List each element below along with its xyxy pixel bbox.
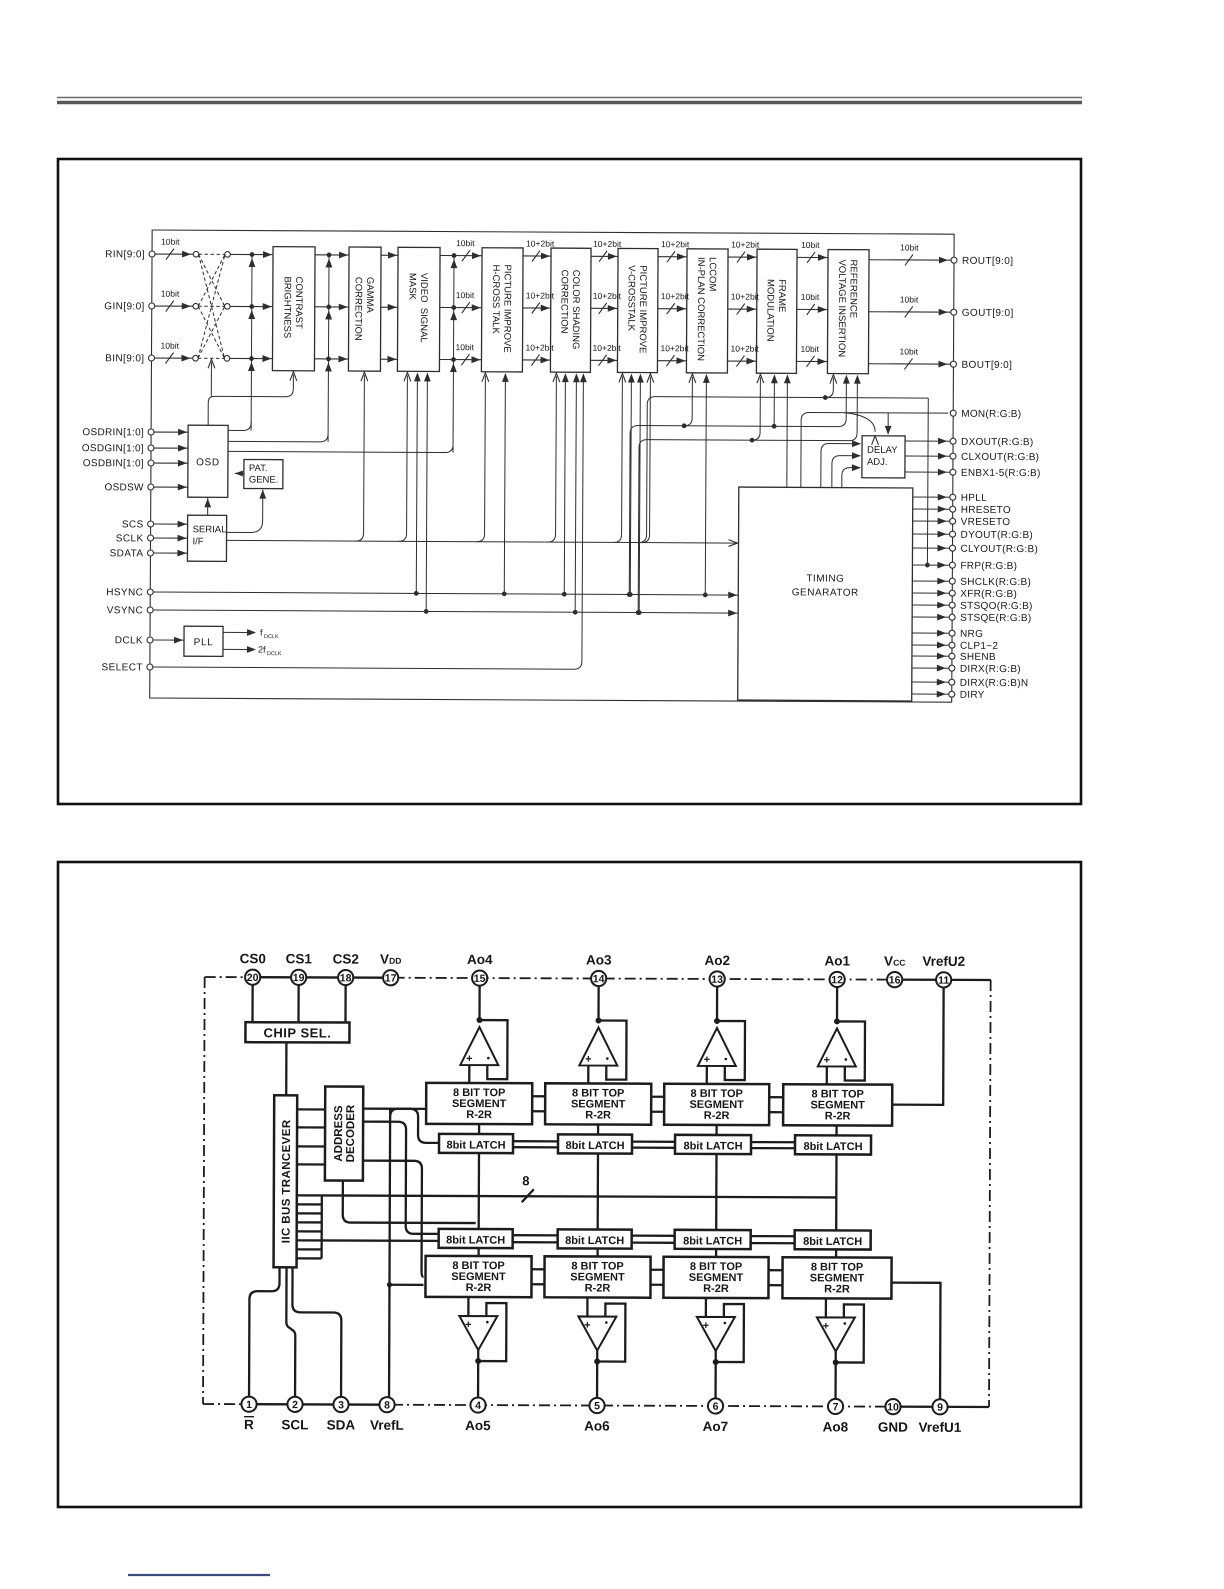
crossbar node left RIN[9:0] xyxy=(193,251,199,257)
svg-text:+: + xyxy=(584,1319,590,1331)
output pin STSQO(R:G:B) xyxy=(912,604,952,606)
output pin ENBX1-5(R:G:B) xyxy=(905,471,953,473)
control riser V-CROSSTALK 1 xyxy=(614,376,623,542)
svg-text:CS0: CS0 xyxy=(240,951,266,966)
svg-text:4: 4 xyxy=(475,1400,481,1412)
svg-text:HPLL: HPLL xyxy=(961,493,987,504)
output pin DIRX(R:G:B)N xyxy=(912,681,952,683)
wire 658-687 row y=358 xyxy=(657,360,686,362)
svg-text:LCCOM: LCCOM xyxy=(707,257,718,291)
svg-text:+: + xyxy=(704,1054,710,1066)
block 8 BIT TOP SEGMENT R-2R (top row 2) xyxy=(545,1083,651,1124)
block SERIAL I/F xyxy=(187,515,226,561)
svg-text:6: 6 xyxy=(713,1401,719,1413)
svg-text:SHCLK(R:G:B): SHCLK(R:G:B) xyxy=(960,577,1031,588)
svg-text:XFR(R:G:B): XFR(R:G:B) xyxy=(960,589,1017,600)
pin 2 bottom xyxy=(287,1397,302,1412)
bottom pin bus solid segment 1-8 xyxy=(249,1403,387,1406)
svg-text:GENE.: GENE. xyxy=(249,475,279,486)
svg-text:10bit: 10bit xyxy=(456,238,475,248)
control riser LCCOM 2 xyxy=(703,592,708,597)
wire ADDRESS DECODER to latch row1 xyxy=(363,1109,439,1143)
svg-text:R-2R: R-2R xyxy=(824,1283,850,1295)
wire 440-482 row y=358 xyxy=(439,359,481,361)
svg-text:DCLK: DCLK xyxy=(264,634,279,640)
control riser V-CROSSTALK 4 xyxy=(642,377,651,543)
svg-text:CHIP SEL.: CHIP SEL. xyxy=(264,1025,332,1040)
wire crossbar to CONTRAST (BIN[9:0]) xyxy=(230,357,272,359)
bus D y=437 xyxy=(638,377,857,614)
svg-text:SDA: SDA xyxy=(327,1417,356,1432)
svg-text:Ao1: Ao1 xyxy=(824,953,850,968)
svg-text:10bit: 10bit xyxy=(900,294,919,304)
pin 14 top xyxy=(591,971,606,986)
wire CS2 to CHIP SEL xyxy=(344,986,346,1023)
control riser FRAME MODULATION 2 xyxy=(772,424,777,429)
svg-text:Ao7: Ao7 xyxy=(703,1419,729,1434)
svg-text:10+2bit: 10+2bit xyxy=(661,239,690,249)
svg-text:MASK: MASK xyxy=(407,273,418,301)
output pin HRESETO xyxy=(913,508,953,510)
svg-text:CS1: CS1 xyxy=(286,951,313,966)
wire R-2R to latch column x=836.5 xyxy=(835,1125,837,1135)
block CHIP SEL. xyxy=(245,1022,349,1042)
svg-text:DXOUT(R:G:B): DXOUT(R:G:B) xyxy=(961,437,1034,448)
pin 15 top xyxy=(472,970,487,985)
bus C y=423 xyxy=(629,377,846,596)
op-amp A2 (top row) xyxy=(579,986,626,1083)
wire latch to bus column x=598 xyxy=(597,1154,599,1197)
wire crossbar to CONTRAST (GIN[9:0]) xyxy=(230,305,272,307)
output pin VRESETO xyxy=(913,520,953,522)
svg-text:GOUT[9:0]: GOUT[9:0] xyxy=(962,308,1014,319)
output GOUT[9:0] xyxy=(869,311,954,313)
svg-text:20: 20 xyxy=(247,972,259,984)
svg-text:10bit: 10bit xyxy=(456,290,475,300)
svg-text:SDATA: SDATA xyxy=(110,548,144,559)
wire CHIP SEL to IIC BUS TRANCEVER xyxy=(285,1042,288,1095)
output BOUT[9:0] xyxy=(868,363,953,365)
svg-text:14: 14 xyxy=(593,973,605,985)
wire ADDRESS DECODER to R-2R row2 xyxy=(363,1161,424,1277)
svg-text:BIN[9:0]: BIN[9:0] xyxy=(105,353,144,364)
svg-text:10+2bit: 10+2bit xyxy=(526,238,555,248)
wire PAT.GENE to OSD xyxy=(235,472,244,474)
svg-text:DECODER: DECODER xyxy=(345,1104,357,1162)
pin 3 bottom xyxy=(333,1397,348,1412)
svg-text:OSDBIN[1:0]: OSDBIN[1:0] xyxy=(83,458,144,469)
output pin FRP(R:G:B) xyxy=(912,564,952,566)
control riser V-CROSSTALK 3 xyxy=(637,610,642,615)
svg-text:I/F: I/F xyxy=(192,536,203,547)
svg-text:+: + xyxy=(585,1053,591,1065)
svg-text:DCLK: DCLK xyxy=(115,635,143,646)
wire ADDRESS DECODER bottom to bus xyxy=(342,1181,344,1196)
svg-text:9: 9 xyxy=(937,1402,943,1414)
wire 440-482 row y=306 xyxy=(440,307,482,309)
wire 797-828 row y=358 xyxy=(796,360,827,362)
svg-text:ENBX1-5(R:G:B): ENBX1-5(R:G:B) xyxy=(961,468,1041,479)
op-amp A6 (bottom row) xyxy=(578,1297,625,1397)
chip boundary (figure 1) xyxy=(150,230,954,702)
wire 381-398 row y=306 xyxy=(381,306,398,308)
footer rule xyxy=(128,1574,270,1576)
svg-text:2: 2 xyxy=(292,1399,298,1411)
crossbar node left BIN[9:0] xyxy=(193,355,199,361)
output pin XFR(R:G:B) xyxy=(912,592,952,594)
svg-text:CONTRAST: CONTRAST xyxy=(293,277,304,330)
wire 658-687 row y=306 xyxy=(658,308,687,310)
wire 523-551 row y=358 xyxy=(522,359,550,361)
svg-text:+: + xyxy=(823,1320,829,1332)
output pin DIRY xyxy=(912,693,952,695)
junction RIN[9:0] x252 xyxy=(250,252,255,257)
svg-text:SELECT: SELECT xyxy=(102,662,143,673)
wire ADDRESS DECODER to latch row2 xyxy=(363,1122,439,1234)
svg-text:VRESETO: VRESETO xyxy=(961,517,1011,528)
block COLOR SHADING CORRECTION xyxy=(550,248,591,372)
wire R-2R to latch column x=716.5 xyxy=(715,1125,717,1135)
wire 728-757 row y=254 xyxy=(728,256,757,258)
wire serial bus xyxy=(227,540,739,543)
wire 315-349 row y=358 xyxy=(314,358,348,360)
svg-text:OSDGIN[1:0]: OSDGIN[1:0] xyxy=(82,443,144,454)
8-bit data bus xyxy=(322,1195,836,1197)
wire 523-551 row y=306 xyxy=(523,307,551,309)
wire latch2 to R-2R2 column x=716.5 xyxy=(715,1249,717,1257)
svg-text:SERIAL: SERIAL xyxy=(193,524,227,535)
pin 19 top xyxy=(291,970,306,985)
pin 6 bottom xyxy=(708,1398,723,1413)
wire 523-551 row y=254 xyxy=(523,255,551,257)
control riser FRAME 1 xyxy=(752,377,760,440)
bus A corner down to FRP xyxy=(926,398,929,565)
output pin HPLL xyxy=(913,496,953,498)
svg-text:Ao5: Ao5 xyxy=(465,1418,491,1433)
svg-text:OSDSW: OSDSW xyxy=(104,482,144,493)
wire 381-398 row y=358 xyxy=(380,358,397,360)
control column x=329 with up arrows xyxy=(327,255,330,442)
block OSD xyxy=(188,425,228,497)
links between adjacent R-2R boxes (bottom row) xyxy=(532,1268,545,1270)
svg-text:BOUT[9:0]: BOUT[9:0] xyxy=(961,360,1012,371)
svg-text:Ao3: Ao3 xyxy=(586,952,612,967)
links between adjacent R-2R boxes (top row) xyxy=(532,1095,545,1097)
wire MON branch to DELAY ADJ xyxy=(887,413,889,433)
svg-text:HSYNC: HSYNC xyxy=(106,587,143,598)
svg-text:Ao6: Ao6 xyxy=(584,1418,610,1433)
wire 728-757 row y=306 xyxy=(728,308,757,310)
wire OSD out 2 xyxy=(228,433,328,442)
block 8bit LATCH (top row 2) xyxy=(558,1134,632,1153)
control riser V-CROSSTALK 2 xyxy=(628,592,633,597)
header thin rule xyxy=(57,97,1082,99)
top pin bus solid segment Vcc-VrefU2 xyxy=(895,979,991,982)
block PICTURE IMPROVE V-CROSSTALK xyxy=(617,248,658,372)
svg-text:2f: 2f xyxy=(258,645,266,655)
wire latch to bus column x=479 xyxy=(478,1153,480,1196)
figure 1 border frame xyxy=(58,159,1081,804)
control riser COLOR SHADING 2 xyxy=(562,592,567,597)
svg-text:11: 11 xyxy=(938,975,949,987)
wire 658-687 row y=254 xyxy=(658,256,687,258)
svg-text:8: 8 xyxy=(522,1173,529,1188)
svg-text:10bit: 10bit xyxy=(456,342,475,352)
control riser REFERENCE 1 xyxy=(825,378,833,398)
block IIC BUS TRANCEVER xyxy=(274,1095,298,1267)
control riser CONTRAST (from OSD top) xyxy=(208,374,293,425)
op-amp A4 (top row) xyxy=(818,987,865,1084)
pin 17 top xyxy=(383,970,398,985)
svg-text:IIC BUS TRANCEVER: IIC BUS TRANCEVER xyxy=(281,1119,293,1243)
control riser COLOR SHADING 1 xyxy=(548,376,557,542)
top pin bus solid segment CS0-VDD xyxy=(253,976,391,979)
svg-text:RIN[9:0]: RIN[9:0] xyxy=(105,249,145,260)
pin 5 bottom xyxy=(589,1398,604,1413)
wire 797-828 row y=254 xyxy=(797,256,828,258)
block 8bit LATCH (bottom row 4) xyxy=(795,1230,871,1249)
svg-text:+: + xyxy=(824,1054,830,1066)
svg-text:8bit LATCH: 8bit LATCH xyxy=(565,1235,624,1247)
svg-text:16: 16 xyxy=(889,974,901,986)
wire SELECT xyxy=(153,378,584,669)
output pin CLYOUT(R:G:B) xyxy=(913,547,953,549)
bundle collector vertical xyxy=(320,1195,323,1258)
svg-text:+: + xyxy=(703,1320,709,1332)
svg-text:R-2R: R-2R xyxy=(466,1282,492,1294)
svg-text:SHENB: SHENB xyxy=(960,652,996,663)
svg-text:V-CROSSTALK: V-CROSSTALK xyxy=(625,265,636,332)
svg-text:HRESETO: HRESETO xyxy=(961,505,1011,516)
svg-text:CLP1~2: CLP1~2 xyxy=(960,641,998,652)
wire 381-398 row y=254 xyxy=(381,254,398,256)
header thick rule xyxy=(57,101,1082,105)
figure 2 border frame xyxy=(58,862,1081,1507)
block 8bit LATCH (bottom row 2) xyxy=(558,1229,632,1248)
pin 1 bottom xyxy=(241,1397,256,1412)
crossbar node left GIN[9:0] xyxy=(193,303,199,309)
block REFERENCE VOLTAGE INSERTION xyxy=(827,250,869,374)
wire R-2R to latch column x=479 xyxy=(478,1124,480,1134)
block 8bit LATCH (top row 1) xyxy=(439,1134,513,1153)
svg-text:VIDEO SIGNAL: VIDEO SIGNAL xyxy=(418,273,429,343)
output pin SHCLK(R:G:B) xyxy=(912,580,952,582)
svg-text:NRG: NRG xyxy=(960,629,983,640)
svg-text:ADJ.: ADJ. xyxy=(867,457,888,468)
wire CS0 to CHIP SEL xyxy=(251,985,253,1022)
block CONTRAST BRIGHTNESS xyxy=(272,247,315,371)
wire BIN[9:0] to crossbar xyxy=(154,357,195,359)
wire CS1 to CHIP SEL xyxy=(297,985,299,1022)
crossbar node right GIN[9:0] xyxy=(224,304,230,310)
wire crossbar to CONTRAST (RIN[9:0]) xyxy=(231,253,273,255)
overline on R pin label xyxy=(244,1416,254,1418)
wire VrefL branch to R-2R row2 xyxy=(389,1284,423,1286)
svg-text:OSD: OSD xyxy=(196,457,220,468)
wire 440-482 row y=254 xyxy=(440,255,482,257)
bus width slash xyxy=(522,1189,534,1202)
wire OSD out 1 xyxy=(228,422,251,430)
svg-text:10+2bit: 10+2bit xyxy=(593,239,622,249)
pin 13 top xyxy=(710,971,725,986)
wire bus to latch2 column x=716.5 xyxy=(715,1197,717,1230)
output pin DIRX(R:G:B) xyxy=(912,667,952,669)
pin 9 bottom xyxy=(932,1399,947,1414)
svg-text:7: 7 xyxy=(833,1401,839,1413)
bus A y=394 xyxy=(639,397,929,545)
svg-text:MODULATION: MODULATION xyxy=(764,279,775,342)
wire PLL out 2fDCLK xyxy=(223,648,250,650)
junction GIN[9:0] x252 xyxy=(249,304,254,309)
svg-text:10bit: 10bit xyxy=(801,344,820,354)
block LCCOM IN-PLAN CORRECTION xyxy=(686,249,728,373)
wire ADDRESS DECODER latch clock line xyxy=(343,1196,476,1224)
links between adjacent latches (top row) xyxy=(513,1140,558,1142)
wire latch2 to R-2R2 column x=479 xyxy=(477,1248,479,1256)
output pin DXOUT(R:G:B) xyxy=(905,440,953,442)
svg-text:8bit LATCH: 8bit LATCH xyxy=(803,1141,862,1153)
output pin STSQE(R:G:B) xyxy=(912,616,952,618)
control riser VIDEO SIGNAL MASK 1 xyxy=(399,375,408,541)
svg-text:GND: GND xyxy=(878,1420,908,1435)
output pin MON(R:G:B) xyxy=(950,410,956,416)
svg-text:SCS: SCS xyxy=(122,519,144,530)
svg-text:VrefU2: VrefU2 xyxy=(922,954,965,969)
svg-text:10bit: 10bit xyxy=(161,341,180,351)
block 8 BIT TOP SEGMENT R-2R (bottom row 1) xyxy=(425,1256,531,1297)
svg-text:FRP(R:G:B): FRP(R:G:B) xyxy=(960,561,1017,572)
block PICTURE IMPROVE H-CROSS TALK xyxy=(481,248,523,372)
svg-text:10bit: 10bit xyxy=(161,289,180,299)
wire TIMING to MON bus xyxy=(801,412,948,488)
svg-text:MON(R:G:B): MON(R:G:B) xyxy=(961,409,1021,420)
wire TIMING to DELAY ADJ 3 xyxy=(842,468,860,488)
op-amp A1 (top row) xyxy=(460,986,507,1083)
svg-text:CORRECTION: CORRECTION xyxy=(558,270,569,334)
svg-text:R: R xyxy=(244,1417,254,1432)
crossbar control riser xyxy=(210,362,212,396)
pin 12 top xyxy=(830,972,845,987)
svg-text:ADDRESS: ADDRESS xyxy=(333,1105,345,1162)
svg-text:10+2bit: 10+2bit xyxy=(731,292,760,302)
svg-text:10+2bit: 10+2bit xyxy=(661,343,690,353)
op-amp A8 (bottom row) xyxy=(817,1298,864,1398)
wire TIMING to DELAY ADJ 2 xyxy=(832,456,860,488)
svg-text:5: 5 xyxy=(594,1400,600,1412)
block 8 BIT TOP SEGMENT R-2R (top row 1) xyxy=(426,1083,532,1124)
svg-text:DIRY: DIRY xyxy=(960,690,985,701)
wire VrefU2 to R-2R row1 xyxy=(892,988,943,1105)
block PLL xyxy=(184,626,223,656)
svg-text:FRAME: FRAME xyxy=(776,279,787,312)
svg-text:GAMMA: GAMMA xyxy=(364,277,375,314)
pin 7 bottom xyxy=(828,1399,843,1414)
wire SERIAL I/F to PAT.GENE xyxy=(227,489,263,532)
op-amp A3 (top row) xyxy=(698,987,745,1084)
control riser FRAME MODULATION 3 xyxy=(784,611,789,616)
svg-text:Ao4: Ao4 xyxy=(467,952,493,967)
block 8bit LATCH (bottom row 1) xyxy=(439,1229,513,1248)
svg-text:SCL: SCL xyxy=(281,1417,308,1432)
svg-text:10: 10 xyxy=(887,1401,899,1413)
wire latch2 to R-2R2 column x=598 xyxy=(596,1249,598,1257)
wire bus to latch2 column x=598 xyxy=(597,1197,599,1230)
svg-text:8bit LATCH: 8bit LATCH xyxy=(803,1236,862,1248)
svg-text:COLOR SHADING: COLOR SHADING xyxy=(570,270,581,350)
svg-text:10+2bit: 10+2bit xyxy=(593,343,622,353)
wire 315-349 row y=306 xyxy=(315,306,349,308)
wire pin1 (R) to IIC xyxy=(249,1267,279,1396)
control riser VIDEO SIGNAL MASK 3 xyxy=(424,609,429,614)
svg-text:10+2bit: 10+2bit xyxy=(593,291,622,301)
svg-text:ROUT[9:0]: ROUT[9:0] xyxy=(962,256,1013,267)
block 8bit LATCH (top row 4) xyxy=(795,1135,871,1154)
svg-text:REFERENCE: REFERENCE xyxy=(847,259,858,318)
block 8 BIT TOP SEGMENT R-2R (top row 4) xyxy=(783,1084,892,1125)
svg-text:BRIGHTNESS: BRIGHTNESS xyxy=(281,276,292,338)
wire SERIAL I/F to OSD xyxy=(207,497,209,515)
svg-text:10bit: 10bit xyxy=(801,240,820,250)
control riser GAMMA xyxy=(356,375,365,541)
block TIMING GENARATOR xyxy=(738,487,913,701)
wire bus to latch2 column x=479 xyxy=(478,1196,480,1229)
output ROUT[9:0] xyxy=(869,259,954,261)
block 8 BIT TOP SEGMENT R-2R (top row 3) xyxy=(664,1084,769,1125)
wire pin2 (SCL) to IIC xyxy=(286,1267,295,1396)
wire R-2R to latch column x=598 xyxy=(597,1125,599,1135)
svg-text:R-2R: R-2R xyxy=(703,1283,729,1295)
svg-text:OSDRIN[1:0]: OSDRIN[1:0] xyxy=(82,427,144,438)
svg-text:VrefU1: VrefU1 xyxy=(919,1420,962,1435)
svg-text:10bit: 10bit xyxy=(900,242,919,252)
svg-text:R-2R: R-2R xyxy=(466,1109,492,1121)
output pin CLXOUT(R:G:B) xyxy=(905,455,953,457)
svg-text:DYOUT(R:G:B): DYOUT(R:G:B) xyxy=(961,530,1034,541)
svg-text:R-2R: R-2R xyxy=(585,1109,611,1121)
block ADDRESS DECODER xyxy=(325,1086,363,1180)
chip dash-dot boundary (figure 2) xyxy=(203,977,205,1404)
wire GIN[9:0] to crossbar xyxy=(155,305,196,307)
svg-text:8bit LATCH: 8bit LATCH xyxy=(683,1140,742,1152)
pin 20 top xyxy=(245,970,260,985)
svg-text:8bit LATCH: 8bit LATCH xyxy=(446,1139,505,1151)
svg-text:CLXOUT(R:G:B): CLXOUT(R:G:B) xyxy=(961,452,1039,463)
wire OSD out 3 xyxy=(228,443,453,452)
svg-text:R-2R: R-2R xyxy=(585,1282,611,1294)
svg-text:13: 13 xyxy=(711,974,723,986)
svg-text:DELAY: DELAY xyxy=(867,445,898,456)
block PAT. GENE. xyxy=(244,459,283,488)
control riser COLOR SHADING 3 xyxy=(573,610,578,615)
block 8bit LATCH (bottom row 3) xyxy=(675,1230,751,1249)
svg-text:12: 12 xyxy=(831,974,843,986)
block FRAME MODULATION xyxy=(756,249,797,373)
control riser H-CROSS TALK 2 xyxy=(502,591,507,596)
wire VrefL to R-2R row1 xyxy=(390,1109,426,1117)
svg-text:8: 8 xyxy=(384,1399,390,1411)
svg-text:PICTURE IMPROVE: PICTURE IMPROVE xyxy=(637,265,648,353)
control riser LCCOM 1 xyxy=(684,377,692,426)
svg-text:10bit: 10bit xyxy=(801,292,820,302)
wire 315-349 row y=254 xyxy=(315,254,349,256)
pin 16 top xyxy=(887,972,902,987)
block 8 BIT TOP SEGMENT R-2R (bottom row 3) xyxy=(663,1257,768,1298)
pin 4 bottom xyxy=(470,1397,485,1412)
svg-text:VSYNC: VSYNC xyxy=(107,605,144,616)
svg-text:DCLK: DCLK xyxy=(267,651,282,657)
svg-text:+: + xyxy=(465,1319,471,1331)
svg-text:DIRX(R:G:B): DIRX(R:G:B) xyxy=(960,664,1021,675)
